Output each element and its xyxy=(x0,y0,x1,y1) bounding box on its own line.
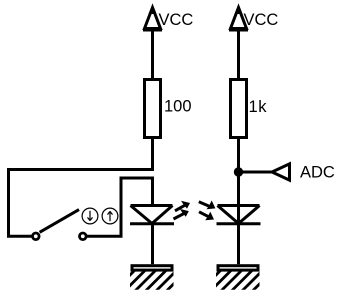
svg-text:1k: 1k xyxy=(249,98,268,116)
svg-text:VCC: VCC xyxy=(159,11,194,29)
svg-text:ADC: ADC xyxy=(300,163,335,181)
svg-text:VCC: VCC xyxy=(244,11,279,29)
svg-text:100: 100 xyxy=(164,98,192,116)
